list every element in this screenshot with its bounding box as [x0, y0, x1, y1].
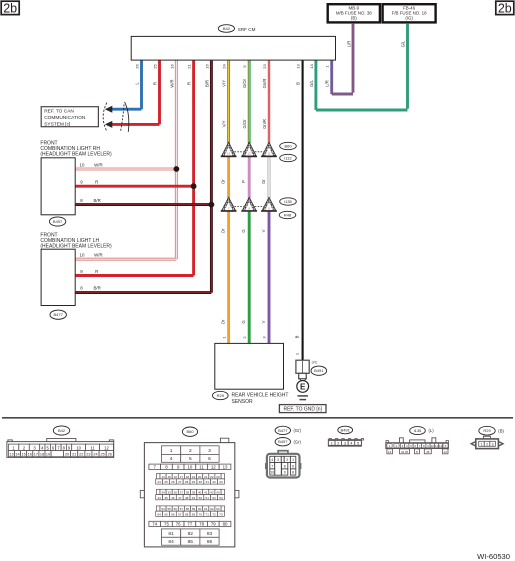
svg-text:28: 28	[185, 480, 189, 484]
svg-text:70: 70	[199, 512, 203, 516]
wire W/R to LH pin 10	[75, 258, 176, 261]
inline connector triangle row2 c	[262, 197, 276, 211]
svg-text:56: 56	[174, 507, 178, 511]
junction dot on W/R	[174, 166, 180, 172]
svg-text:10: 10	[431, 444, 435, 448]
svg-text:26: 26	[171, 480, 175, 484]
svg-text:B60: B60	[284, 143, 292, 148]
svg-text:58: 58	[186, 507, 190, 511]
wire Or segment 2	[227, 212, 230, 344]
svg-text:(HEADLIGHT BEAM LEVELER): (HEADLIGHT BEAM LEVELER)	[40, 152, 112, 158]
inline connector triangle row2 a	[221, 197, 235, 211]
svg-text:26: 26	[135, 64, 140, 69]
wire P segment	[248, 157, 251, 199]
oval i135 (row2)	[280, 198, 297, 205]
connector pinout B42	[8, 440, 12, 442]
svg-text:25: 25	[101, 453, 105, 457]
svg-text:E: E	[300, 382, 306, 391]
svg-text:13: 13	[444, 450, 448, 454]
svg-text:6: 6	[208, 456, 211, 462]
svg-text:79: 79	[211, 522, 216, 527]
svg-text:B477: B477	[278, 428, 288, 433]
svg-text:4: 4	[350, 442, 352, 446]
svg-text:W/R: W/R	[94, 163, 103, 168]
svg-text:10: 10	[80, 253, 85, 258]
svg-text:SRF CM: SRF CM	[238, 27, 256, 32]
svg-text:Gr: Gr	[261, 179, 266, 184]
connector pinout R29	[483, 436, 490, 439]
svg-text:B497: B497	[53, 219, 63, 224]
svg-text:16: 16	[169, 64, 174, 69]
svg-text:42: 42	[210, 491, 214, 495]
svg-text:34: 34	[161, 491, 165, 495]
wire B/R to LH pin 8	[75, 291, 211, 294]
svg-text:B: B	[295, 335, 300, 338]
svg-text:2b: 2b	[498, 2, 512, 16]
svg-text:34 35: 34 35	[401, 450, 408, 454]
svg-text:25: 25	[153, 64, 158, 69]
svg-text:49: 49	[192, 496, 196, 500]
svg-text:R: R	[153, 82, 158, 85]
svg-text:81: 81	[168, 531, 174, 537]
ground symbol E	[297, 381, 309, 393]
svg-text:15: 15	[22, 453, 26, 457]
oval B42 with SRF CM label	[218, 25, 234, 33]
svg-text:B: B	[296, 82, 301, 85]
wire R to RH pin 9	[75, 185, 193, 188]
svg-text:11: 11	[267, 152, 270, 156]
svg-text:G/Or: G/Or	[242, 78, 247, 88]
svg-text:74: 74	[152, 522, 157, 527]
svg-text:1: 1	[331, 442, 333, 446]
svg-text:12: 12	[388, 450, 392, 454]
svg-text:2b: 2b	[3, 2, 17, 16]
svg-text:33: 33	[219, 480, 223, 484]
svg-text:47: 47	[178, 496, 182, 500]
svg-text:65: 65	[164, 512, 168, 516]
svg-text:8: 8	[292, 471, 294, 475]
svg-text:21: 21	[187, 64, 192, 69]
svg-text:57: 57	[180, 507, 184, 511]
REF. TO CAN COMMUNICATION SYSTEM box	[41, 107, 98, 127]
svg-text:B497: B497	[278, 439, 288, 444]
svg-text:B/R: B/R	[204, 80, 209, 87]
svg-text:5: 5	[357, 442, 359, 446]
svg-text:12: 12	[248, 152, 252, 156]
svg-text:85: 85	[188, 539, 194, 545]
svg-text:35: 35	[167, 491, 171, 495]
svg-text:SENSOR: SENSOR	[232, 399, 254, 405]
svg-text:60: 60	[198, 507, 202, 511]
svg-text:31: 31	[206, 480, 210, 484]
svg-text:11: 11	[90, 445, 95, 450]
svg-text:3: 3	[277, 458, 279, 462]
svg-text:R29: R29	[483, 428, 491, 433]
page label 2b top-left	[1, 1, 19, 14]
B42 wire 9: B pin 13	[302, 60, 304, 360]
svg-text:69: 69	[192, 512, 196, 516]
svg-text:9: 9	[284, 471, 286, 475]
B42 wire 2: R pin 25	[158, 60, 161, 125]
svg-text:13: 13	[9, 453, 13, 457]
svg-text:20: 20	[65, 453, 69, 457]
wire B/R to RH pin 8	[75, 203, 211, 206]
inline connector triangle row1 a	[221, 142, 235, 156]
svg-text:39: 39	[192, 491, 196, 495]
svg-text:1: 1	[481, 442, 483, 446]
svg-text:67: 67	[178, 512, 182, 516]
svg-text:16: 16	[174, 475, 178, 479]
svg-text:W/R: W/R	[169, 79, 174, 87]
svg-text:6: 6	[292, 464, 294, 468]
wire L to CAN with arrow	[112, 108, 142, 111]
page label 2b top-right	[496, 1, 514, 14]
connector pinout B491	[329, 439, 331, 440]
svg-text:B491: B491	[341, 427, 351, 432]
svg-text:8: 8	[284, 464, 286, 468]
svg-text:72: 72	[212, 512, 216, 516]
inline connector triangle row1 c	[262, 142, 276, 156]
oval B477 (pinout)	[275, 426, 290, 434]
svg-text:2: 2	[337, 442, 339, 446]
svg-text:R: R	[95, 180, 98, 185]
oval B42 (pinout)	[53, 426, 69, 435]
svg-text:40: 40	[198, 491, 202, 495]
svg-text:76: 76	[176, 522, 181, 527]
B42 wire 5: B/R pin 16	[210, 60, 213, 293]
svg-text:3: 3	[492, 442, 494, 446]
svg-text:61: 61	[204, 507, 208, 511]
svg-text:80: 80	[223, 522, 228, 527]
svg-text:43: 43	[216, 491, 220, 495]
svg-text:L/R: L/R	[346, 41, 351, 48]
oval B497	[49, 217, 65, 226]
svg-text:G/Or: G/Or	[242, 119, 247, 129]
svg-text:50: 50	[199, 496, 203, 500]
svg-text:24: 24	[222, 64, 227, 69]
separator line	[2, 417, 513, 419]
twisted pair symbol	[103, 103, 107, 132]
svg-text:2: 2	[189, 448, 192, 454]
svg-text:REAR VEHICLE HEIGHT: REAR VEHICLE HEIGHT	[232, 392, 289, 398]
oval B491	[311, 366, 327, 375]
svg-text:B42: B42	[58, 428, 66, 433]
B42 wire 3: W/R pin 16	[175, 60, 178, 259]
svg-text:19: 19	[46, 453, 50, 457]
svg-text:V: V	[261, 229, 266, 232]
wire G/L from FB-46 fuse	[406, 23, 409, 108]
wire W/R to RH pin 10	[75, 167, 176, 170]
dashed link row 1	[229, 151, 269, 153]
oval i135 (pinout)	[410, 427, 426, 435]
wire L/R from MB-9 fuse	[352, 23, 355, 92]
svg-text:59: 59	[192, 507, 196, 511]
svg-text:18: 18	[186, 475, 190, 479]
svg-text:53: 53	[219, 496, 223, 500]
svg-text:2: 2	[486, 442, 488, 446]
svg-text:48: 48	[185, 496, 189, 500]
svg-text:Or: Or	[221, 179, 226, 184]
svg-text:(IG): (IG)	[405, 16, 413, 21]
svg-text:12: 12	[439, 444, 443, 448]
oval i112 (row1)	[280, 154, 297, 161]
junction dot on R	[191, 183, 197, 189]
svg-text:23: 23	[262, 64, 267, 69]
svg-text:1: 1	[170, 448, 173, 454]
svg-text:32: 32	[212, 480, 216, 484]
junction dot on B/R	[209, 202, 215, 208]
svg-text:18: 18	[40, 453, 44, 457]
svg-text:Gn/R: Gn/R	[262, 119, 267, 129]
wire Or segment 1	[227, 157, 230, 199]
svg-text:27: 27	[178, 480, 182, 484]
svg-text:J/C: J/C	[312, 360, 318, 365]
svg-text:L/R: L/R	[325, 80, 330, 87]
svg-text:41: 41	[204, 491, 208, 495]
oval R29	[213, 391, 229, 399]
fuse box MB-9 M/B FUSE NO. 38 (B)	[328, 4, 380, 22]
svg-text:B60: B60	[186, 429, 194, 434]
svg-text:REF. TO CAN: REF. TO CAN	[44, 109, 74, 115]
wire R to LH pin 9	[75, 274, 193, 277]
svg-text:71: 71	[206, 512, 210, 516]
svg-text:(L): (L)	[429, 428, 435, 433]
connector pinout B60	[220, 438, 228, 443]
svg-text:B491: B491	[314, 368, 324, 373]
svg-text:13: 13	[227, 152, 231, 156]
svg-text:2: 2	[286, 458, 288, 462]
svg-text:21: 21	[72, 453, 76, 457]
svg-text:30: 30	[199, 480, 203, 484]
svg-text:11: 11	[199, 465, 204, 470]
svg-text:COMMUNICATION: COMMUNICATION	[44, 115, 86, 121]
svg-text:1: 1	[292, 458, 294, 462]
REF. TO GND box	[279, 405, 326, 413]
inline connector triangle row2 b	[242, 197, 256, 211]
connector box rear vehicle height sensor	[215, 343, 284, 389]
svg-text:63: 63	[216, 507, 220, 511]
svg-text:B/R: B/R	[94, 285, 101, 290]
svg-text:12: 12	[211, 465, 216, 470]
oval R48 (row2)	[279, 211, 296, 218]
svg-text:37: 37	[180, 491, 184, 495]
svg-text:84: 84	[168, 539, 174, 545]
svg-text:46: 46	[171, 496, 175, 500]
svg-text:B/R: B/R	[94, 198, 101, 203]
svg-text:i135: i135	[414, 428, 422, 433]
svg-text:44: 44	[157, 496, 161, 500]
svg-text:V: V	[261, 320, 266, 323]
oval R29 (pinout)	[479, 426, 495, 435]
svg-text:54: 54	[161, 507, 165, 511]
svg-text:R: R	[95, 269, 98, 274]
svg-text:64: 64	[157, 512, 161, 516]
svg-text:REF. TO GND [n]: REF. TO GND [n]	[283, 406, 322, 412]
connector pinout B477/B497	[278, 451, 288, 455]
svg-text:7: 7	[271, 464, 273, 468]
svg-text:73: 73	[219, 512, 223, 516]
svg-text:12: 12	[104, 445, 109, 450]
svg-text:WI-60530: WI-60530	[477, 552, 510, 561]
svg-text:78: 78	[199, 522, 204, 527]
svg-text:W/R: W/R	[94, 253, 103, 258]
wire Gr segment	[268, 157, 271, 199]
svg-text:52: 52	[212, 496, 216, 500]
svg-text:75: 75	[164, 522, 169, 527]
svg-text:Gn/R: Gn/R	[262, 79, 267, 89]
svg-text:R29: R29	[217, 393, 225, 398]
svg-text:83: 83	[207, 531, 213, 537]
svg-text:10: 10	[187, 465, 192, 470]
svg-text:13: 13	[223, 465, 228, 470]
svg-text:G: G	[241, 229, 246, 232]
svg-text:66: 66	[171, 512, 175, 516]
svg-text:51: 51	[206, 496, 210, 500]
svg-text:Or: Or	[221, 319, 226, 324]
svg-text:10: 10	[76, 445, 81, 450]
svg-text:62: 62	[210, 507, 214, 511]
svg-text:14: 14	[161, 475, 165, 479]
svg-text:Or: Or	[221, 228, 226, 233]
inline connector triangle row1 b	[242, 142, 256, 156]
svg-text:V/Y: V/Y	[222, 80, 227, 87]
oval B491 (pinout)	[338, 426, 353, 434]
svg-text:77: 77	[187, 522, 192, 527]
fuse box FB-46 F/B FUSE NO. 18 (IG)	[383, 4, 436, 22]
B42 wire 10: G/L pin 14	[314, 60, 317, 110]
oval B60 (pinout)	[182, 427, 197, 436]
svg-text:23: 23	[216, 475, 220, 479]
svg-text:G: G	[241, 320, 246, 323]
svg-text:(Gr): (Gr)	[294, 439, 302, 444]
svg-text:B477: B477	[54, 312, 64, 317]
svg-text:14: 14	[309, 64, 314, 69]
svg-text:13: 13	[296, 64, 301, 69]
svg-text:82: 82	[188, 531, 194, 537]
svg-text:38: 38	[186, 491, 190, 495]
B42 wire 7: G/Or pin 9	[248, 60, 251, 144]
svg-text:22: 22	[79, 453, 83, 457]
B42 wire 4: R pin 21	[192, 60, 195, 276]
svg-text:23: 23	[86, 453, 90, 457]
svg-text:24: 24	[93, 453, 97, 457]
svg-text:G/L: G/L	[309, 79, 314, 86]
wire V segment	[268, 212, 271, 344]
svg-text:55: 55	[167, 507, 171, 511]
svg-text:17: 17	[34, 453, 38, 457]
B42 wire 11: L/R pin 1	[330, 60, 333, 94]
svg-text:25: 25	[164, 480, 168, 484]
svg-text:P: P	[241, 180, 246, 183]
B42 wire 1: L pin 26	[140, 60, 143, 109]
svg-text:R: R	[187, 82, 192, 85]
svg-text:16: 16	[28, 453, 32, 457]
wire R to CAN with arrow	[112, 123, 160, 126]
svg-text:4: 4	[170, 456, 173, 462]
svg-text:10: 10	[80, 163, 85, 168]
svg-text:21: 21	[204, 475, 208, 479]
svg-text:i135: i135	[284, 199, 292, 204]
svg-text:3: 3	[208, 448, 211, 454]
svg-text:29: 29	[192, 480, 196, 484]
svg-text:SYSTEM [c]: SYSTEM [c]	[44, 121, 70, 127]
svg-text:10: 10	[270, 471, 274, 475]
svg-text:22: 22	[210, 475, 214, 479]
svg-text:4: 4	[271, 458, 273, 462]
svg-text:68: 68	[185, 512, 189, 516]
connector box front combination light RH	[41, 158, 75, 215]
svg-text:15: 15	[167, 475, 171, 479]
svg-text:36: 36	[174, 491, 178, 495]
svg-text:17: 17	[180, 475, 184, 479]
svg-text:86: 86	[207, 539, 213, 545]
svg-text:19: 19	[192, 475, 196, 479]
svg-text:(Gr): (Gr)	[294, 428, 302, 433]
oval B497 (pinout)	[275, 438, 290, 446]
svg-text:(B): (B)	[498, 428, 504, 433]
svg-text:24: 24	[157, 480, 161, 484]
connector box front combination light LH	[41, 249, 75, 305]
svg-text:V/Y: V/Y	[222, 120, 227, 127]
svg-text:G/L: G/L	[401, 40, 406, 47]
svg-text:R48: R48	[284, 212, 292, 217]
wire G segment	[248, 212, 251, 344]
svg-text:45: 45	[164, 496, 168, 500]
svg-text:20: 20	[198, 475, 202, 479]
oval B477	[50, 310, 66, 319]
connector pinout i135	[400, 438, 404, 443]
svg-text:26: 26	[108, 453, 112, 457]
svg-text:16: 16	[204, 64, 209, 69]
svg-text:11: 11	[435, 444, 438, 448]
B42 wire 8: Gn/R pin 23	[268, 60, 271, 144]
svg-text:45: 45	[426, 450, 430, 454]
J/C junction connector	[296, 360, 309, 373]
dashed link row 2	[229, 206, 269, 208]
B42 wire 6: V/Y pin 24	[227, 60, 230, 144]
svg-text:i112: i112	[284, 155, 292, 160]
connector B42 box	[131, 36, 335, 60]
svg-text:14: 14	[15, 453, 19, 457]
svg-text:(B): (B)	[351, 16, 357, 21]
svg-text:5: 5	[189, 456, 192, 462]
svg-text:3: 3	[344, 442, 346, 446]
oval B60 (row1)	[280, 142, 297, 149]
svg-text:B42: B42	[223, 26, 231, 31]
